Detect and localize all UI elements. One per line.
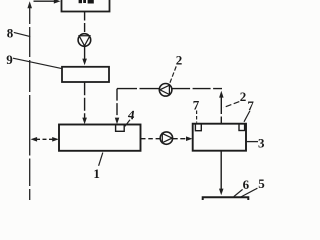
leader 1 [99, 153, 103, 166]
leader 5 [241, 188, 258, 197]
reactor vessel 3 [193, 124, 246, 151]
leader 3 [246, 141, 258, 143]
svg-text:7: 7 [193, 98, 200, 113]
inlet pipe into digester (dashed, arrowheads both ends) [31, 137, 59, 142]
svg-text:3: 3 [258, 135, 265, 150]
settler vessel (bottom, cut off) [203, 197, 249, 200]
pipe washer to digester (dashed arrow down) [82, 82, 87, 124]
svg-text:1: 1 [93, 166, 100, 181]
svg-text:2: 2 [176, 53, 183, 68]
port 7 right (small box on top edge) [239, 124, 245, 131]
pump P3 (circle with right triangle) [160, 132, 172, 144]
text fragments inside top vessel (cut-off characters) [79, 0, 94, 4]
leader 8 [14, 32, 30, 36]
leader 7 left (dashed) [196, 111, 198, 123]
washer vessel 9 [62, 67, 109, 82]
pump P2 (circle with left triangle) [159, 84, 172, 97]
leader 7 right [244, 111, 250, 122]
pipe top vessel to pump P1 [84, 12, 86, 34]
vessel (top, cut off at image top) [62, 0, 110, 12]
return pipe from reactor (horizontal + up arrow) [172, 89, 224, 124]
pipe P1 to washer vessel (arrow down) [82, 47, 87, 66]
svg-text:7: 7 [247, 98, 254, 113]
recycle riser (dashed vertical line, left) [27, 1, 32, 200]
feed line arrow into top vessel [34, 0, 61, 4]
leader 2 right (dashed) [223, 102, 239, 108]
leader 4 [125, 120, 130, 127]
pump P1 (circle with down triangle) [78, 34, 91, 47]
pipe P3 to reactor (dashed arrow right) [173, 136, 193, 141]
outlet pipe reactor to settler (arrow down) [219, 151, 224, 195]
leader 9 [13, 58, 62, 68]
recycle pipe into port 4 (corner with down arrow) [115, 89, 159, 125]
svg-text:5: 5 [258, 176, 265, 191]
inlet port 4 (small box on top edge of vessel 1) [116, 125, 125, 132]
svg-text:8: 8 [7, 26, 14, 41]
svg-text:9: 9 [6, 52, 13, 67]
svg-text:2: 2 [240, 89, 247, 104]
digester vessel 1 [59, 125, 141, 151]
port 7 left (small box on top edge) [195, 124, 201, 131]
leader 6 [234, 189, 243, 196]
pipe digester to pump P3 (dashed) [141, 138, 160, 140]
svg-text:6: 6 [243, 177, 250, 192]
leader 2 (dashed) [170, 66, 177, 83]
